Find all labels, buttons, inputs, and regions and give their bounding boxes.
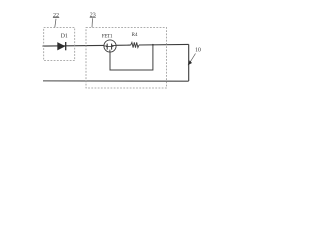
leader line 22 [55, 19, 56, 28]
node junction dot [152, 44, 154, 46]
svg-text:R4: R4 [132, 33, 138, 38]
transistor FET1 [104, 40, 116, 52]
svg-text:10: 10 [195, 48, 201, 54]
arrowhead 10 [188, 60, 192, 65]
svg-text:D1: D1 [61, 34, 68, 40]
wire right vertical [188, 44, 190, 81]
wire top main left segment [43, 44, 105, 47]
wire top right of R4 to corner [139, 43, 189, 46]
leader line 23 [91, 18, 94, 27]
box 23 dashed [86, 28, 167, 89]
box 22 dashed [44, 28, 75, 61]
svg-text:FET1: FET1 [102, 34, 113, 40]
diode D1 [57, 42, 65, 50]
resistor R4 [131, 42, 139, 47]
leader line 10 [190, 54, 195, 63]
wire loop FET1 source to node after R4 [110, 45, 153, 70]
wire top between FET1 and R4 [116, 44, 131, 46]
wire bottom return [43, 80, 189, 82]
